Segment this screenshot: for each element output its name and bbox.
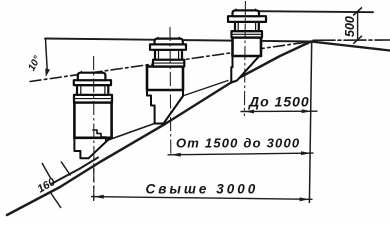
tick b of 160 dimension — [61, 162, 71, 176]
right chimney neck inner lines — [238, 22, 255, 31]
left chimney centerline — [93, 56, 95, 201]
wire: flashing line between left and middle chimney — [104, 124, 155, 142]
right chimney base skirt — [231, 50, 261, 83]
middle chimney flange inner line — [153, 62, 184, 64]
wire: chimney-top level extension line for 500 dimension — [259, 11, 373, 12]
wire: roof upper parallel line near left chimney — [52, 158, 98, 184]
svg-text:Свыше 3000: Свыше 3000 — [146, 182, 259, 197]
left chimney pot ticks — [81, 71, 102, 73]
chimney stack 3 (right, within 1500) — [228, 9, 266, 83]
wire: main roof slope line (left pitch) — [7, 42, 311, 216]
chimney stack 2 (middle, 1500-3000) — [147, 37, 186, 124]
wire: flashing line between middle and right chimney — [159, 81, 228, 105]
middle chimney neck inner lines — [159, 50, 179, 60]
middle chimney collar — [150, 44, 186, 49]
wire: horizontal ridge-level reference line — [45, 39, 311, 42]
arrow left of Свыше 3000 — [94, 195, 104, 199]
right chimney flange inner line — [232, 33, 263, 35]
left chimney flange inner line — [74, 98, 112, 100]
right chimney centerline — [244, 1, 245, 116]
middle chimney centerline — [169, 27, 172, 155]
tick bottom of 500 — [353, 36, 362, 44]
middle chimney pot ticks — [158, 37, 179, 39]
dimension line "Свыше 3000" — [91, 197, 313, 200]
tick top of 500 — [353, 7, 362, 15]
tick a of 160 dimension — [42, 163, 51, 178]
arrow right of До 1500 — [302, 109, 312, 113]
dimension line "От 1500 до 3000" — [168, 153, 314, 155]
wire: 10-degree reference line from ridge — [30, 42, 311, 82]
dimension 500: vertical dimension line — [357, 11, 359, 39]
left chimney pot cap — [78, 73, 106, 81]
right chimney collar — [228, 16, 266, 22]
tick c of 160 dimension — [51, 193, 62, 209]
arrow left of До 1500 — [244, 110, 254, 114]
left chimney base skirt with steps — [74, 132, 111, 158]
chimney stack 1 (left, beyond 3000) — [74, 71, 112, 158]
extension line at ridge (right vertical) — [309, 42, 311, 204]
arrow right of От 1500 до 3000 — [301, 151, 311, 155]
wire: right roof slope from ridge — [311, 42, 390, 51]
left chimney neck inner lines — [81, 85, 105, 95]
svg-text:От 1500 до 3000: От 1500 до 3000 — [176, 136, 300, 151]
arrow left of От 1500 до 3000 — [171, 153, 181, 157]
right chimney neck — [235, 22, 259, 31]
middle chimney flange — [153, 60, 184, 67]
middle chimney body — [147, 67, 183, 91]
svg-text:До 1500: До 1500 — [248, 94, 310, 110]
middle chimney base skirt with steps — [147, 88, 183, 124]
middle chimney pot cap — [155, 39, 183, 45]
svg-text:500: 500 — [343, 16, 357, 37]
right chimney pot cap — [233, 10, 260, 16]
right chimney body — [233, 38, 262, 57]
right chimney pot ticks — [236, 9, 256, 11]
middle chimney neck — [155, 50, 182, 60]
arrowhead of angle leader — [45, 69, 50, 78]
left chimney flange — [74, 95, 112, 103]
right chimney flange — [232, 31, 263, 37]
dimension line "До 1500" — [241, 110, 318, 112]
left chimney neck — [77, 85, 108, 95]
left chimney inner base steps — [92, 130, 106, 141]
left chimney collar — [74, 80, 111, 85]
angle leader line for 10 degrees — [46, 39, 48, 70]
arrow right of Свыше 3000 — [300, 197, 310, 201]
wire: dashed ridge-level extension right of peak — [313, 39, 390, 41]
left chimney body — [74, 103, 111, 138]
extension line for Свыше 3000 (left, dashed) — [93, 168, 95, 202]
